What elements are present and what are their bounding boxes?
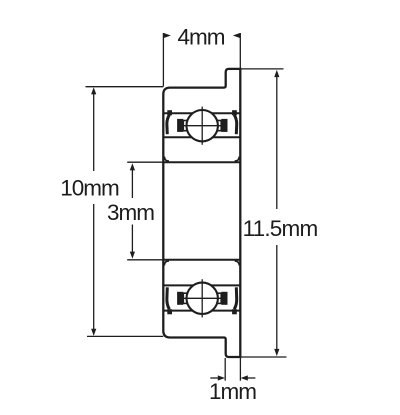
- upper seal left: [167, 115, 170, 135]
- fillet bore-top left: [164, 157, 169, 162]
- upper seal right: [234, 115, 237, 135]
- lower cage pocket left: [183, 293, 187, 303]
- lower raceway line: [163, 310, 240, 312]
- dim 1mm left arrow tail: [210, 377, 219, 379]
- arrowhead 4mm right (points left): [233, 33, 241, 38]
- lower inner ring line: [163, 284, 240, 286]
- fillet bore-bottom right: [235, 261, 240, 266]
- lower ball crosshair horizontal: [182, 297, 222, 299]
- upper cage pocket right: [217, 121, 221, 131]
- upper rivet right: [221, 119, 227, 132]
- arrowhead 10mm up: [91, 87, 96, 94]
- upper inner ring line: [163, 136, 240, 138]
- arrowhead 1mm left (points right): [218, 375, 225, 380]
- svg-text:10mm: 10mm: [60, 176, 119, 201]
- upper ball crosshair horizontal: [182, 125, 222, 127]
- dim 1mm right arrow tail: [247, 377, 256, 379]
- bore bottom line (thick part across body): [163, 259, 240, 261]
- dim 10mm dimension line lower part: [93, 204, 95, 330]
- dim 10mm top extension line: [86, 86, 164, 88]
- dim 11.5mm bottom extension line: [242, 356, 287, 358]
- upper raceway line: [163, 112, 240, 114]
- dim 4mm left extension line: [162, 33, 164, 87]
- bore top extension line (3mm, thin, to left): [127, 161, 163, 163]
- lower shield anchor left: [167, 309, 172, 314]
- lower cage pocket right: [217, 293, 221, 303]
- lower rivet left: [177, 292, 183, 305]
- dim 1mm right extension line: [239, 358, 241, 381]
- dim 3mm dimension line upper part: [131, 169, 133, 199]
- dim 4mm right extension line: [239, 33, 241, 68]
- dim 11.5mm dimension line upper part: [276, 77, 278, 210]
- dim 11.5mm dimension line lower part: [276, 245, 278, 350]
- arrowhead 1mm right (points left): [241, 375, 248, 380]
- dim 11.5mm top extension line: [242, 68, 284, 70]
- arrowhead 11.5mm up: [274, 70, 279, 77]
- arrowhead 11.5mm down: [274, 349, 279, 356]
- svg-text:3mm: 3mm: [107, 200, 154, 225]
- dim 10mm dimension line upper part: [93, 94, 95, 172]
- upper rivet left: [177, 119, 183, 132]
- svg-text:11.5mm: 11.5mm: [243, 216, 318, 241]
- lower rivet right: [221, 292, 227, 305]
- upper shield anchor left: [167, 110, 172, 115]
- arrowhead 3mm down: [130, 252, 135, 259]
- dim 10mm bottom extension line: [87, 335, 163, 337]
- upper ball crosshair vertical: [201, 107, 203, 145]
- svg-text:4mm: 4mm: [178, 25, 225, 50]
- lower seal left: [167, 287, 170, 309]
- fillet bore-bottom left: [164, 261, 169, 266]
- lower seal right: [234, 287, 237, 309]
- svg-text:1mm: 1mm: [209, 379, 256, 404]
- arrowhead 4mm left (points right): [163, 33, 171, 38]
- outer ring body outline with flange: [163, 69, 240, 357]
- lower ball: [187, 283, 218, 314]
- arrowhead 10mm down: [91, 329, 96, 336]
- dim 1mm left extension line: [224, 358, 226, 381]
- lower ball crosshair vertical: [201, 279, 203, 317]
- lower shield anchor right: [232, 309, 237, 314]
- fillet bore-top right: [235, 157, 240, 162]
- arrowhead 3mm up: [130, 163, 135, 170]
- upper shield anchor right: [232, 110, 237, 115]
- upper cage pocket left: [183, 121, 187, 131]
- bore bottom extension line (3mm, thin, to left): [127, 259, 163, 261]
- bore top line (thick part across body): [163, 161, 240, 163]
- upper ball: [187, 110, 218, 141]
- dim 3mm dimension line lower part: [131, 225, 133, 254]
